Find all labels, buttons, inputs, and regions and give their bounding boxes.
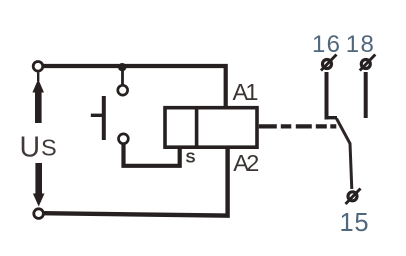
arrow Us down <box>33 163 45 207</box>
svg-text:A1: A1 <box>233 79 259 105</box>
contact 16 fixed tick <box>325 116 337 119</box>
contact 16 fixed line <box>325 72 329 120</box>
junction node on top rail <box>118 63 126 71</box>
contact blade from 16 down to terminal 15 <box>337 119 352 190</box>
svg-text:A2: A2 <box>233 150 259 176</box>
contact 18 fixed line <box>364 72 368 118</box>
svg-text:18: 18 <box>346 31 374 58</box>
arrow Us up <box>32 73 44 124</box>
relay coil box <box>165 108 257 148</box>
svg-text:S: S <box>41 135 57 161</box>
mechanical linkage dash-dot line from coil to contact blade <box>259 124 341 128</box>
wire: button bottom contact to S terminal of relay box <box>124 144 180 166</box>
svg-text:15: 15 <box>340 209 369 237</box>
relay box divider <box>195 108 199 148</box>
terminal circle bottom-left (Us -) <box>34 209 44 219</box>
terminal screw 18 <box>360 55 376 71</box>
wire: stub from junction down to button contact <box>121 67 124 85</box>
svg-text:U: U <box>20 132 41 164</box>
terminal screw 15 <box>346 189 361 205</box>
push button S: bottom contact circle <box>119 134 129 144</box>
wire: top rail from left terminal to A1 and down to coil box <box>44 66 226 107</box>
terminal screw 16 <box>321 55 337 71</box>
push button S: top contact circle <box>118 85 128 95</box>
push button S: actuator bar <box>102 96 106 140</box>
push button S: plunger <box>91 114 102 117</box>
terminal circle top-left (Us +) <box>33 62 43 72</box>
svg-text:16: 16 <box>312 31 340 58</box>
svg-text:S: S <box>186 150 196 167</box>
wire: A2 terminal down and bottom rail to left terminal <box>44 148 228 216</box>
